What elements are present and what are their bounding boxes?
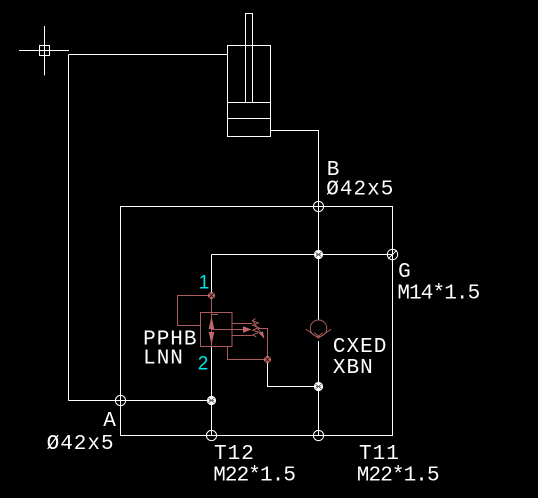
manifold block outline [121, 207, 393, 436]
pilot junction dot 2 [264, 356, 271, 363]
junction hatch drain [316, 384, 322, 389]
relief valve spring box top line [232, 323, 253, 325]
port T12 [206, 430, 216, 440]
wire cylinder rod-end to node B [271, 131, 319, 207]
port B [313, 201, 323, 211]
junction hatch B-G [316, 252, 322, 257]
cylinder piston line 2 [228, 118, 271, 120]
relief valve top tick [212, 314, 219, 316]
relief valve pilot arrow [243, 326, 252, 333]
junction hatch A-T12 [209, 398, 215, 403]
svg-text:LNN: LNN [143, 347, 184, 370]
relief valve U1 body square [201, 313, 233, 347]
check valve poppet circle [310, 320, 327, 337]
relief valve drain path [228, 347, 268, 360]
port A [115, 395, 125, 405]
relief valve down-flow arrow [209, 332, 215, 345]
wire to port A [69, 400, 212, 402]
pilot junction dot 1 [208, 292, 215, 299]
wire below check valve to port T11 [318, 341, 320, 436]
svg-text:XBN: XBN [333, 357, 374, 380]
junction node A-T12 line [207, 396, 216, 405]
svg-text:Ø42x5: Ø42x5 [47, 433, 115, 456]
wire from corner to cylinder cap-end [69, 54, 228, 56]
relief valve up-flow arrow [209, 316, 215, 329]
relief valve pilot line [178, 296, 209, 326]
check valve seat inner arrow [314, 333, 323, 337]
wire node B down to junction [318, 207, 320, 321]
check valve seat [306, 329, 331, 338]
wire junction to port G [212, 254, 393, 256]
relief valve spring box bottom line [232, 335, 253, 337]
svg-text:Ø42x5: Ø42x5 [326, 179, 394, 202]
svg-text:2: 2 [198, 354, 209, 375]
svg-text:M22*1.5: M22*1.5 [213, 465, 295, 488]
relief valve output line to pilot arrow [212, 329, 244, 331]
pilot dot 2 hatch [265, 357, 270, 362]
svg-text:G: G [398, 261, 412, 284]
crosshair cursor [19, 26, 69, 76]
svg-text:CXED: CXED [333, 336, 387, 359]
wire left vertical run [68, 55, 70, 401]
junction node B-G line [314, 250, 323, 259]
cylinder piston line 1 [228, 102, 271, 104]
svg-text:1: 1 [199, 273, 210, 294]
wire down to relief valve pilot node [211, 255, 213, 296]
svg-text:M14*1.5: M14*1.5 [397, 282, 479, 305]
relief valve adjust arrow shaft [252, 320, 261, 334]
relief valve center line [211, 296, 213, 347]
relief valve spring [252, 318, 258, 337]
wire relief valve outlet to port T12 [211, 347, 213, 436]
relief valve vent line [259, 329, 268, 360]
port G plug slash [388, 250, 397, 259]
port G [387, 249, 397, 259]
svg-text:T11: T11 [359, 443, 400, 466]
svg-text:M22*1.5: M22*1.5 [357, 465, 439, 488]
pilot dot 1 hatch [209, 293, 214, 298]
port T11 [313, 430, 323, 440]
svg-text:T12: T12 [214, 443, 255, 466]
junction drain node [314, 382, 323, 391]
relief valve adjust arrowhead [259, 331, 265, 339]
wire relief vent to drain junction [268, 360, 319, 387]
cylinder rod [246, 14, 253, 103]
svg-text:A: A [103, 410, 117, 433]
cylinder body [228, 46, 271, 137]
